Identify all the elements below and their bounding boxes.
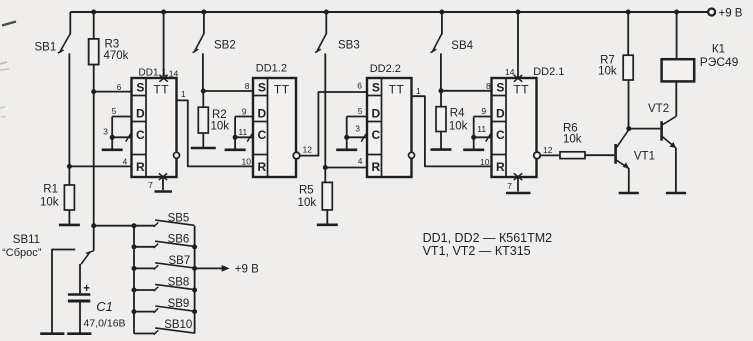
node rail-DD2.1 pin14 junction	[516, 10, 521, 15]
node left bus SB6 junction	[132, 244, 137, 249]
wire right bus of button column	[194, 226, 196, 334]
svg-text:S: S	[136, 80, 144, 94]
output /Q circle DD1.2 pin 12	[293, 145, 312, 159]
switch SB1	[35, 12, 71, 166]
ground below R5	[317, 210, 338, 225]
svg-text:8: 8	[486, 81, 491, 91]
switch SB10	[134, 319, 194, 335]
svg-text:6: 6	[117, 82, 122, 92]
wire R3 bottom to S-node	[93, 65, 95, 92]
svg-text:+9 В: +9 В	[235, 264, 259, 276]
svg-text:SB11: SB11	[13, 234, 40, 246]
wire feed to SB5-SB10 left bus	[94, 225, 134, 227]
svg-text:R4: R4	[450, 108, 465, 120]
svg-text:R: R	[496, 160, 505, 174]
resistor R2 10k	[198, 91, 229, 133]
wire R input DD1.1 from SB1/R1 node	[67, 156, 132, 169]
wire SB3 node to R input DD2.2	[325, 156, 367, 168]
svg-text:D: D	[258, 107, 267, 121]
svg-text:SB4: SB4	[451, 40, 473, 52]
svg-text:7: 7	[148, 180, 153, 190]
svg-text:10: 10	[242, 157, 252, 167]
svg-text:SB10: SB10	[164, 319, 192, 331]
wire R6 to VT1 base	[585, 154, 614, 156]
resistor R1 10k	[40, 166, 74, 210]
switch SB9	[134, 298, 194, 313]
resistor R4 10k	[436, 91, 468, 133]
node right bus SB8 junction	[192, 288, 197, 293]
svg-text:3: 3	[355, 123, 360, 133]
svg-text:14: 14	[505, 67, 515, 77]
svg-text:1: 1	[416, 86, 421, 96]
svg-text:R5: R5	[299, 185, 314, 197]
svg-text:DD1.2: DD1.2	[256, 63, 287, 75]
svg-text:SB6: SB6	[168, 233, 190, 245]
node rail-SB4 junction	[439, 10, 444, 15]
transistor VT1 (KT315, NPN)	[614, 129, 655, 168]
svg-text:РЭС49: РЭС49	[700, 55, 739, 69]
node bus feed junction	[91, 223, 96, 228]
wire R7 to VT1 collector node	[628, 80, 630, 129]
svg-text:TT: TT	[153, 83, 169, 97]
switch SB4	[431, 12, 474, 91]
node left bus SB8 junction	[132, 288, 137, 293]
flip-flop DD2.1 (K561TM2)	[492, 66, 565, 177]
wire SB4 node to S input DD2.1	[441, 81, 492, 91]
svg-text:R: R	[372, 160, 381, 174]
pin 14 DD2.1 power stub	[505, 12, 522, 82]
node right bus SB6 junction	[192, 244, 197, 249]
flip-flop DD1.1 (K561TM2)	[132, 68, 177, 178]
wire /Q DD2.1 to R6	[540, 154, 560, 156]
svg-text:C: C	[136, 128, 145, 142]
switch SB11 (Сброс reset button)	[2, 226, 94, 265]
svg-text:10k: 10k	[563, 134, 582, 146]
svg-text:SB8: SB8	[168, 277, 190, 289]
wire +9V top supply rail	[70, 11, 708, 13]
svg-text:VT2: VT2	[648, 103, 669, 115]
svg-text:4: 4	[358, 156, 363, 166]
svg-text:SB7: SB7	[169, 255, 191, 267]
svg-text:D: D	[372, 107, 381, 121]
svg-text:TT: TT	[274, 83, 290, 97]
switch SB6	[134, 233, 194, 248]
node rail-SB3 junction	[324, 10, 329, 15]
svg-text:4: 4	[122, 156, 127, 166]
svg-text:VT1, VT2 — КТ315: VT1, VT2 — КТ315	[423, 244, 531, 258]
svg-text:47,0/16В: 47,0/16В	[84, 317, 126, 329]
wire SB2 node to S input DD1.2	[203, 81, 253, 91]
annotation parts list	[423, 231, 553, 258]
svg-text:8: 8	[245, 81, 250, 91]
wire Q pin1 DD1.1 to R pin10 DD1.2	[177, 89, 254, 167]
node rail-K1 junction	[674, 10, 679, 15]
flip-flop DD2.2 (K561TM2)	[367, 63, 412, 177]
svg-text:6: 6	[357, 81, 362, 91]
wire VT1 emitter to ground	[619, 168, 639, 193]
svg-text:R3: R3	[105, 39, 120, 51]
svg-text:К1: К1	[712, 44, 725, 56]
node right bus SB9 junction	[192, 309, 197, 314]
svg-text:10k: 10k	[40, 197, 59, 209]
wire arrow output +9 V from SB7 row	[195, 264, 260, 276]
svg-text:“Сброс”: “Сброс”	[2, 247, 42, 259]
svg-text:SB2: SB2	[214, 40, 236, 52]
svg-text:C: C	[372, 128, 381, 142]
wire SB11 left terminal to ground	[40, 250, 64, 334]
node S DD1.1 (R3/SB-bus junction)	[91, 89, 96, 94]
svg-text:DD1, DD2 — К561ТМ2: DD1, DD2 — К561ТМ2	[423, 231, 553, 245]
svg-text:12: 12	[303, 145, 313, 155]
svg-text:1: 1	[181, 89, 186, 99]
wire left bus of button column	[133, 226, 135, 334]
output /Q circle DD1.1	[174, 152, 180, 158]
svg-text:C1: C1	[96, 299, 113, 314]
svg-text:S: S	[258, 80, 266, 94]
transistor VT2 (KT315, NPN)	[648, 103, 676, 148]
output /Q circle DD2.2	[409, 152, 415, 158]
node S DD1.2 (SB2/R2 junction)	[201, 89, 206, 94]
switch SB2	[193, 12, 236, 91]
wire VT1 collector node to VT2 base	[629, 128, 661, 130]
wire D-C tie with ground DD1.2	[225, 107, 253, 150]
node R DD2.2 (SB3/R5 junction)	[323, 165, 328, 170]
svg-text:SB3: SB3	[338, 40, 360, 52]
node S DD2.1 (SB4/R4 junction)	[439, 88, 444, 93]
svg-text:10k: 10k	[298, 197, 317, 209]
relay K1 РЭС49 coil	[662, 44, 739, 82]
wire C1 to ground	[67, 301, 91, 334]
svg-text:14: 14	[169, 69, 179, 79]
label R3 470k	[104, 39, 129, 62]
svg-text:C: C	[496, 128, 505, 142]
svg-text:5: 5	[358, 106, 363, 116]
wire S input DD1.1	[94, 82, 132, 92]
wire VT2 collector to relay K1	[675, 81, 677, 116]
svg-text:+9 В: +9 В	[719, 8, 743, 20]
svg-text:5: 5	[112, 106, 117, 116]
svg-text:10k: 10k	[211, 120, 230, 132]
svg-text:SB9: SB9	[168, 298, 190, 310]
svg-text:VT1: VT1	[634, 151, 655, 163]
svg-text:3: 3	[103, 127, 108, 137]
node left bus SB9 junction	[132, 309, 137, 314]
flip-flop DD1.2 (K561TM2)	[253, 63, 296, 178]
node right bus SB7 junction	[192, 266, 197, 271]
svg-text:10k: 10k	[449, 121, 468, 133]
capacitor C1 47,0/16V (electrolytic)	[68, 264, 126, 329]
wire D-C tie with ground DD2.1	[463, 106, 491, 150]
svg-text:R: R	[136, 160, 145, 174]
svg-text:TT: TT	[389, 83, 405, 97]
wire S-node column: R3 node down to button bus	[93, 92, 95, 226]
svg-text:TT: TT	[513, 83, 529, 97]
node rail-SB2 junction	[201, 10, 206, 15]
svg-text:9: 9	[481, 106, 486, 116]
node rail-R7 junction	[626, 10, 631, 15]
ground below R2	[191, 133, 216, 148]
node VT1 collector / R7 / VT2 base	[626, 126, 631, 131]
svg-text:470k: 470k	[104, 50, 129, 62]
wire /Q DD1.2 to S input DD2.2	[300, 81, 367, 156]
wire D-C tie with ground DD2.2	[336, 106, 367, 150]
svg-text:C: C	[258, 128, 267, 142]
svg-text:11: 11	[477, 124, 486, 134]
svg-text:S: S	[372, 80, 380, 94]
svg-text:DD2.2: DD2.2	[370, 63, 401, 75]
svg-text:R1: R1	[43, 184, 58, 196]
node rail-R3 junction	[91, 10, 96, 15]
svg-text:10: 10	[480, 157, 490, 167]
switch SB5	[134, 212, 194, 227]
svg-text:S: S	[496, 80, 504, 94]
resistor R3 470k	[89, 12, 99, 65]
svg-text:DD2.1: DD2.1	[533, 66, 564, 78]
svg-text:7: 7	[507, 181, 512, 191]
svg-text:R: R	[258, 160, 267, 174]
svg-text:9: 9	[242, 107, 247, 117]
svg-text:+: +	[83, 283, 90, 295]
resistor R6 10k (horizontal)	[560, 123, 585, 159]
ground below R4	[431, 132, 452, 150]
svg-text:SB1: SB1	[35, 42, 57, 54]
wire VT2 emitter to ground	[666, 148, 686, 193]
output /Q circle DD2.1 pin 12	[534, 145, 553, 159]
resistor R5 10k	[298, 168, 333, 210]
switch SB8	[134, 277, 194, 292]
svg-text:12: 12	[543, 145, 553, 155]
terminal +9 V	[708, 8, 743, 20]
svg-text:SB5: SB5	[168, 212, 190, 224]
pin 7 DD2.1 power stub + ground	[506, 173, 531, 193]
svg-text:R2: R2	[212, 109, 227, 121]
switch SB7	[134, 255, 194, 270]
node rail-DD1.1 pin14 junction	[161, 10, 166, 15]
svg-text:11: 11	[238, 127, 247, 137]
svg-text:D: D	[136, 107, 145, 121]
ground below R1	[59, 210, 80, 225]
pin 14 DD1.1 power stub	[159, 12, 178, 82]
switch SB3	[315, 12, 360, 168]
wire rail to relay K1	[676, 12, 678, 59]
wire D-C tie with ground DD1.1	[102, 106, 132, 150]
wire Q pin1 DD2.2 to R pin10 DD2.1	[412, 86, 492, 167]
pin 7 DD1.1 power stub + ground	[148, 173, 172, 191]
node left bus top corner	[132, 223, 137, 228]
scan artifact marks (edge smudges)	[0, 22, 16, 118]
svg-text:10k: 10k	[598, 66, 617, 78]
node left bus SB7 junction	[132, 266, 137, 271]
svg-text:D: D	[496, 107, 505, 121]
resistor R7 10k	[598, 12, 633, 80]
